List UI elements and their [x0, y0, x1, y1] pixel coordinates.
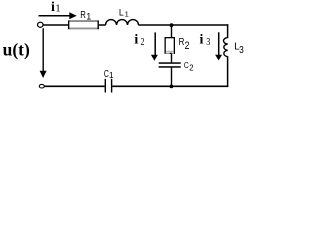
svg-text:R: R: [80, 10, 86, 21]
svg-text:1: 1: [86, 12, 91, 22]
svg-text:3: 3: [239, 44, 244, 56]
svg-text:i: i: [134, 33, 138, 48]
svg-text:3: 3: [206, 37, 210, 48]
svg-text:i: i: [200, 33, 204, 48]
svg-text:L: L: [119, 8, 124, 18]
svg-text:1: 1: [109, 70, 114, 80]
svg-text:2: 2: [189, 63, 194, 73]
svg-text:u(t): u(t): [3, 39, 30, 59]
svg-text:1: 1: [55, 4, 60, 15]
svg-text:C: C: [184, 60, 189, 70]
svg-text:2: 2: [141, 37, 145, 48]
svg-text:2: 2: [185, 40, 190, 52]
svg-text:i: i: [51, 0, 55, 15]
svg-text:1: 1: [125, 10, 129, 19]
svg-text:R: R: [179, 37, 185, 48]
